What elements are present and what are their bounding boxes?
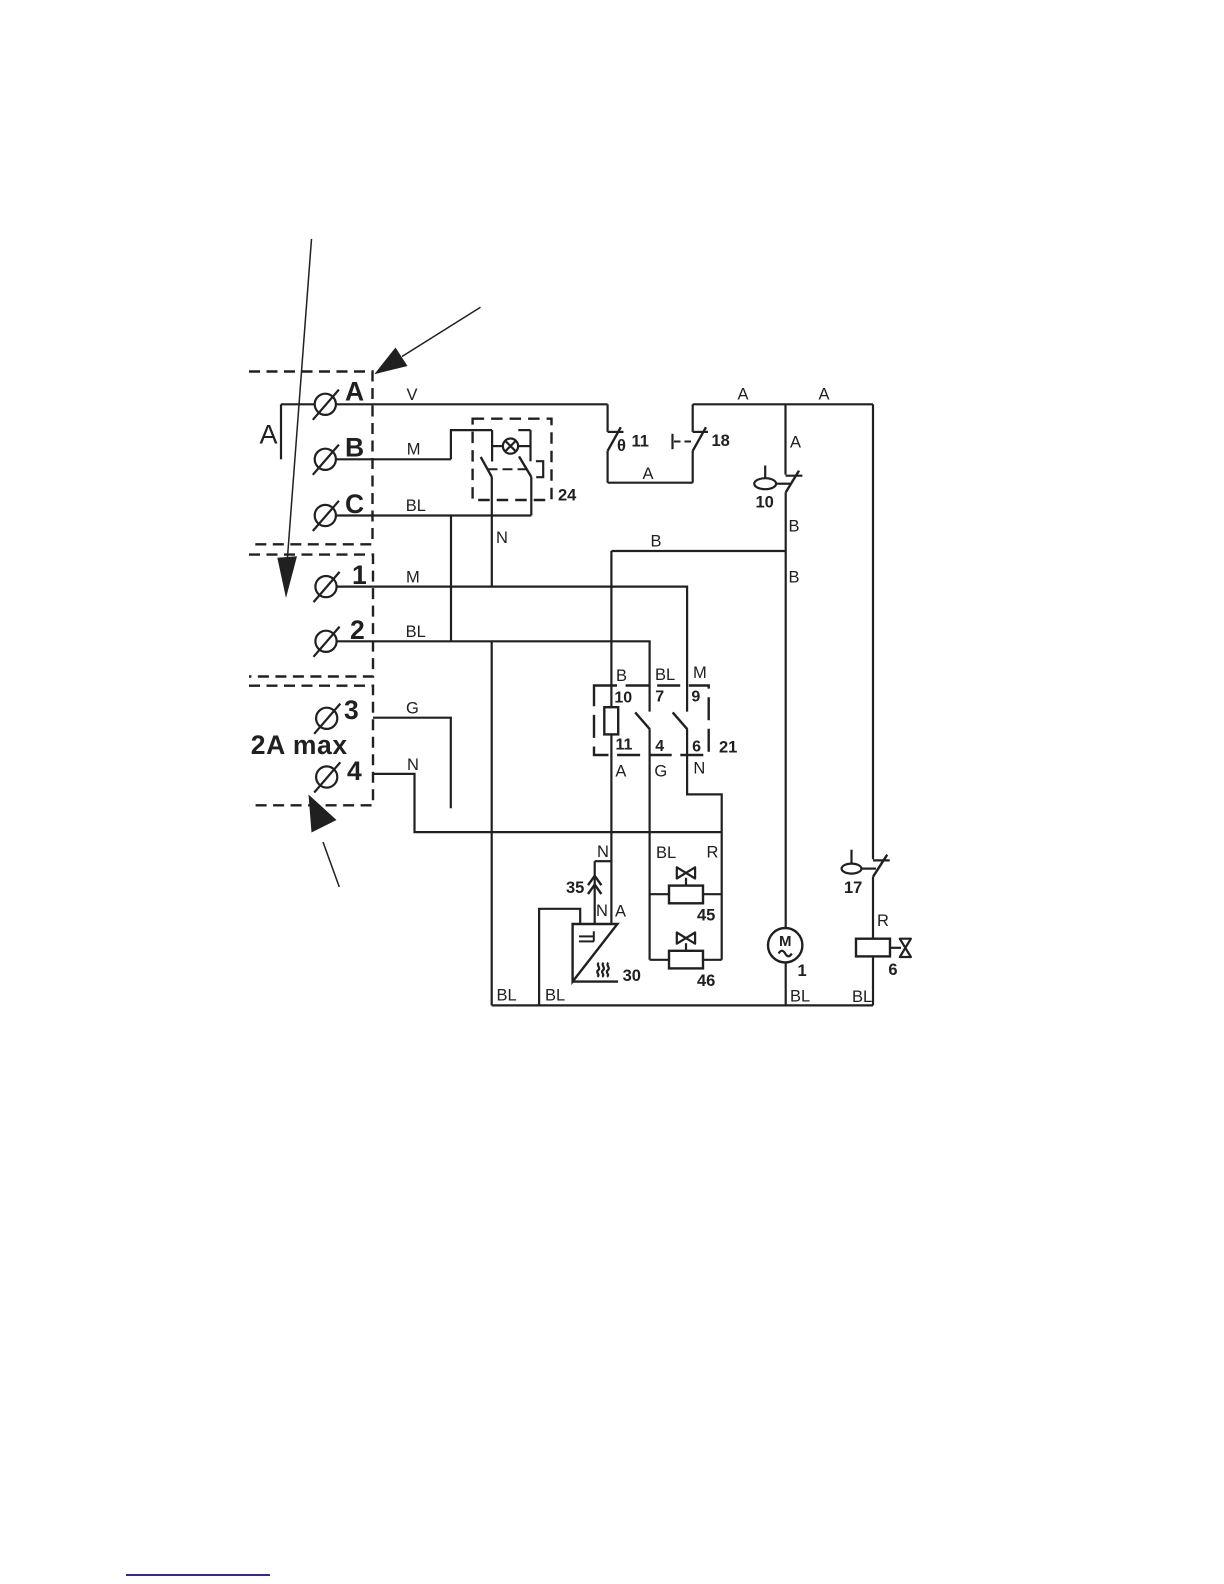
svg-text:BL: BL — [545, 987, 565, 1005]
svg-text:A: A — [643, 465, 654, 483]
svg-text:46: 46 — [697, 972, 715, 990]
svg-text:B: B — [651, 533, 662, 551]
svg-text:3: 3 — [344, 695, 359, 725]
svg-text:11: 11 — [616, 736, 633, 753]
svg-text:A: A — [738, 386, 749, 404]
svg-text:A: A — [790, 434, 801, 452]
svg-text:4: 4 — [655, 738, 664, 755]
svg-text:A: A — [615, 903, 626, 921]
svg-text:R: R — [707, 844, 719, 862]
svg-text:35: 35 — [566, 879, 584, 897]
svg-text:BL: BL — [497, 987, 517, 1005]
svg-text:G: G — [654, 763, 667, 781]
svg-text:N: N — [597, 843, 609, 861]
svg-text:N: N — [693, 760, 705, 778]
svg-text:B: B — [789, 569, 800, 587]
svg-text:M: M — [779, 933, 792, 950]
svg-text:2: 2 — [350, 615, 365, 645]
svg-text:BL: BL — [655, 666, 675, 684]
svg-text:4: 4 — [347, 756, 362, 786]
svg-text:BL: BL — [406, 623, 426, 641]
svg-text:M: M — [693, 664, 707, 682]
svg-text:R: R — [877, 912, 889, 930]
svg-text:1: 1 — [352, 560, 367, 590]
svg-text:30: 30 — [623, 967, 641, 985]
svg-text:A: A — [615, 763, 626, 781]
svg-text:24: 24 — [558, 487, 577, 505]
svg-text:BL: BL — [406, 497, 426, 515]
svg-text:7: 7 — [655, 689, 664, 706]
svg-text:45: 45 — [697, 907, 715, 925]
svg-text:N: N — [407, 756, 419, 774]
svg-text:BL: BL — [790, 988, 810, 1006]
svg-text:6: 6 — [692, 739, 701, 756]
svg-text:C: C — [345, 489, 364, 519]
svg-text:17: 17 — [844, 879, 862, 897]
svg-text:B: B — [616, 667, 627, 685]
svg-text:V: V — [407, 386, 418, 404]
svg-text:BL: BL — [852, 988, 872, 1006]
svg-text:A: A — [345, 376, 364, 406]
svg-text:6: 6 — [888, 961, 897, 979]
svg-text:B: B — [345, 433, 364, 463]
svg-text:1: 1 — [798, 962, 807, 980]
svg-text:θ: θ — [617, 437, 626, 455]
svg-text:A: A — [819, 386, 830, 404]
svg-text:B: B — [789, 518, 800, 536]
svg-text:10: 10 — [614, 689, 632, 706]
svg-text:18: 18 — [712, 432, 730, 450]
svg-text:M: M — [406, 569, 420, 587]
svg-text:11: 11 — [632, 433, 649, 451]
svg-text:10: 10 — [756, 494, 774, 512]
svg-text:N: N — [496, 529, 508, 547]
svg-text:M: M — [407, 440, 421, 458]
svg-text:21: 21 — [719, 738, 737, 756]
svg-text:BL: BL — [656, 844, 676, 862]
svg-text:N: N — [596, 902, 608, 920]
svg-text:2A max: 2A max — [251, 730, 348, 760]
svg-text:9: 9 — [691, 689, 700, 706]
svg-text:A: A — [260, 420, 278, 450]
svg-text:G: G — [406, 700, 419, 718]
